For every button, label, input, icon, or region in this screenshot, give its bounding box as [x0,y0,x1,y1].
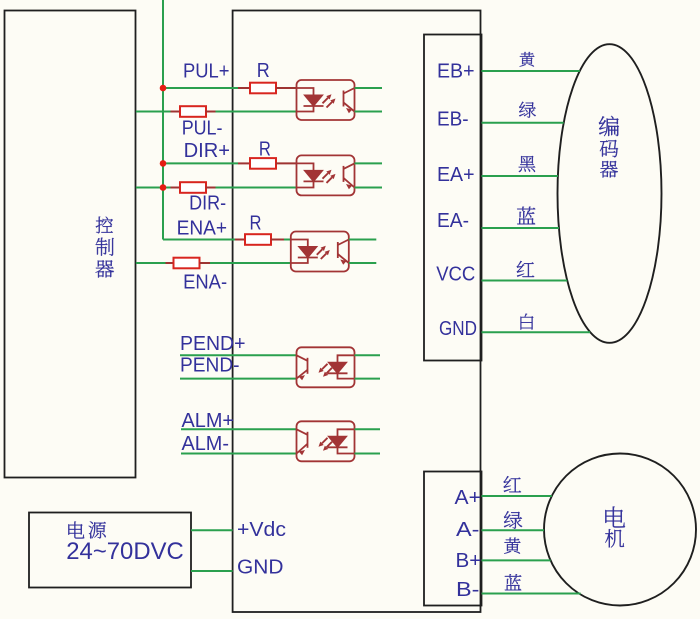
label 器 (encoder) [600,161,618,178]
svg-text:GND: GND [237,557,284,579]
wire ENA- to opto U4 cathode [210,262,291,264]
svg-text:B+: B+ [456,550,482,572]
label 制 [96,238,114,256]
wire opto emitter stub [355,187,383,189]
resistor R (PUL+) [250,83,276,94]
label 机 [605,529,624,547]
wire ENA- stub [166,262,174,264]
wire PEND+ stub right [355,354,381,356]
wire encoder GND white [482,331,591,333]
motor terminal block [424,472,482,606]
wire opto collector stub [355,87,383,89]
wire +Vdc [191,529,233,531]
wire DIR- from controller [136,187,171,189]
svg-text:DIR+: DIR+ [184,140,230,162]
wire colour 黑 black (EA+) [519,156,536,172]
wire motor A- green [482,529,545,531]
optocoupler U3 (DIR) [297,155,355,195]
motor circle [544,454,696,606]
resistor (ENA-) [174,258,200,269]
junction dot DIR- [160,184,167,191]
wire PUL- to opto U2 cathode [216,111,297,113]
label 控 (controller) [96,217,113,234]
wire motor A+ red [482,495,552,497]
optocoupler U2 (PUL) [297,80,355,120]
wire DIR- to opto U3 cathode [216,187,297,189]
resistor R (ENA+) [245,234,271,245]
svg-text:EA-: EA- [437,210,469,232]
wire encoder EB+ yellow [482,70,580,72]
wire ALM+ stub right [355,428,381,430]
encoder terminal block [424,35,482,361]
power supply box [29,513,191,588]
wire +5V common bus (vertical) [162,0,164,240]
resistor (PUL-) [180,106,206,117]
label 电 (power) [68,522,84,539]
wire DIR- stub right [206,187,216,189]
svg-text:ALM+: ALM+ [182,410,235,432]
wire opto collector stub [355,162,383,164]
wire R to opto U3 anode [276,162,297,164]
wire ALM- stub right [355,453,381,455]
wire colour 蓝 blue (B-) [505,574,522,590]
wire DIR- stub [171,187,181,189]
wire R stub [271,239,284,241]
wire opto emitter stub [355,111,383,113]
wire power GND [191,570,233,572]
label 电 (motor) [605,506,625,527]
svg-text:PEND+: PEND+ [180,333,246,355]
wire PUL+ stub [238,87,250,89]
optocoupler U5 (PEND) [297,347,355,387]
svg-text:EB+: EB+ [437,61,475,83]
label 码 [600,140,618,157]
svg-text:+Vdc: +Vdc [237,519,286,541]
wire PEND+ [180,354,297,356]
svg-text:A+: A+ [455,487,481,509]
encoder ellipse [558,44,662,343]
wire encoder EA- blue [482,227,559,229]
svg-text:24~70DVC: 24~70DVC [66,538,184,565]
wire ALM- [181,453,297,455]
wire colour 蓝 blue (EA-) [517,207,535,225]
wire colour 白 white (GND) [521,314,534,330]
wire opto collector stub [349,239,377,241]
wire PEND- stub right [355,378,381,380]
svg-text:ALM-: ALM- [182,433,230,455]
svg-text:VCC: VCC [436,263,475,285]
wire colour 黄 yellow (EB+) [520,52,535,67]
wire PUL- from controller [136,111,171,113]
resistor R (DIR+) [250,158,276,169]
optocoupler U6 (ALM) [297,421,355,461]
wire opto emitter stub [349,262,377,264]
svg-text:GND: GND [439,318,477,340]
wire PEND- [180,378,297,380]
wire colour 绿 green (EB-) [519,102,536,118]
wire motor B+ yellow [482,559,551,561]
resistor (DIR-) [180,182,206,193]
wire encoder EB- green [482,122,564,124]
svg-text:PUL+: PUL+ [183,60,230,82]
driver box U1 [233,11,481,613]
wire PUL- stub [171,111,181,113]
wire ENA+ bus to resistor [163,239,235,241]
wire ALM+ [181,428,297,430]
wire ENA+ stub [235,239,245,241]
wire colour 红 red (A+) [504,476,522,492]
junction dot DIR+ [160,160,167,167]
wire ENA- from controller [136,262,166,264]
svg-text:A-: A- [456,519,479,541]
controller box [5,11,136,478]
svg-text:EA+: EA+ [437,164,475,186]
junction dot PUL+ [160,85,167,92]
svg-text:PEND-: PEND- [180,355,240,377]
svg-text:EB-: EB- [437,108,469,130]
svg-text:ENA-: ENA- [183,272,227,294]
optocoupler U4 (ENA) [291,232,349,272]
wire ENA- stub right [200,262,211,264]
wire PUL- stub right [206,111,216,113]
wire encoder VCC red [482,280,568,282]
wire motor B- blue [482,593,581,595]
wire colour 红 red (VCC) [517,261,535,277]
svg-text:R: R [250,213,262,235]
wire DIR+ bus to resistor [163,162,238,164]
wire PUL+ bus to resistor [163,87,238,89]
label 编 (encoder) [599,116,619,136]
wire encoder EA+ black [482,175,558,177]
svg-text:PUL-: PUL- [182,118,223,140]
label 源 [89,521,106,538]
svg-text:B-: B- [456,579,479,601]
svg-text:ENA+: ENA+ [177,218,228,240]
wire R to opto U2 anode [276,87,297,89]
wire colour 绿 green (A-) [504,511,522,529]
wire colour 黄 yellow (B+) [504,538,520,554]
svg-text:R: R [259,139,271,161]
svg-text:DIR-: DIR- [189,193,226,215]
wire to opto U4 anode [284,239,291,241]
svg-text:R: R [257,60,270,82]
label 器 [95,260,113,277]
wire DIR+ stub [238,162,250,164]
